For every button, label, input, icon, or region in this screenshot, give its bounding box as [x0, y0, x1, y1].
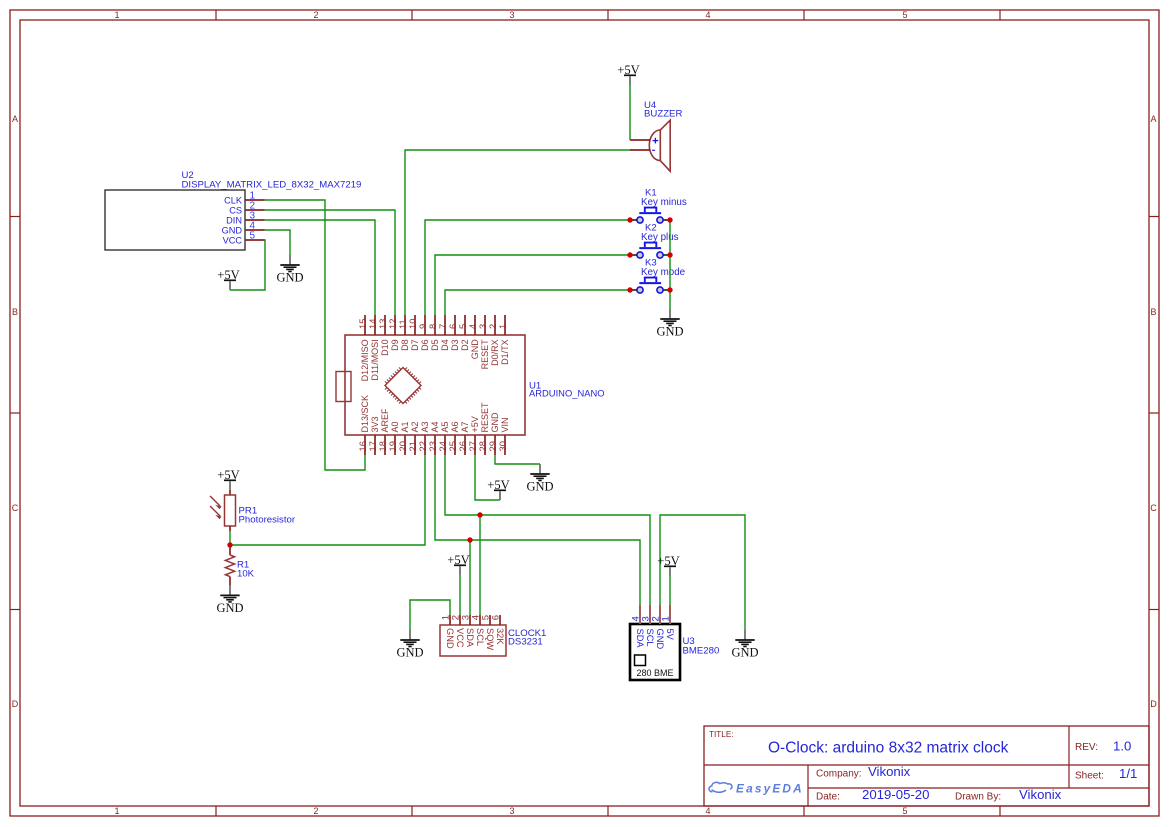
U1 usb connector rectangle: [336, 372, 351, 402]
svg-text:1/1: 1/1: [1119, 766, 1137, 781]
svg-text:A6: A6: [450, 421, 460, 432]
wire U1 +5V pin to +5V: [475, 455, 500, 500]
node SDA junction: [467, 537, 472, 542]
svg-text:1: 1: [661, 616, 672, 621]
svg-text:1: 1: [497, 324, 508, 329]
pin 4 GND of U1 (top): [467, 315, 480, 359]
svg-text:4: 4: [705, 10, 710, 20]
ground at R1: [216, 585, 243, 615]
svg-text:2: 2: [313, 806, 318, 816]
microcontroller U1 ARDUINO_NANO body: [345, 335, 605, 435]
wire K1 to U1 D6: [425, 220, 630, 315]
svg-text:VCC: VCC: [455, 628, 465, 648]
node K3 right terminal: [667, 287, 672, 292]
svg-text:D2: D2: [460, 339, 470, 351]
svg-text:A: A: [1150, 114, 1156, 124]
svg-text:6: 6: [491, 615, 502, 620]
wire U3 5V to +5V: [669, 576, 671, 605]
wire U2 GND to ground: [265, 230, 291, 255]
pin 29 GND of U1 (bottom): [487, 412, 500, 455]
svg-text:DIN: DIN: [226, 215, 242, 225]
svg-text:5: 5: [250, 231, 256, 242]
svg-text:GND: GND: [656, 325, 683, 339]
pin 16 D13/SCK of U1 (bottom): [357, 395, 370, 455]
pin - of U4: [630, 149, 651, 151]
wire SCL net U1 A5 to U3: [445, 455, 650, 605]
pin 20 A1 of U1 (bottom): [397, 421, 410, 455]
power +5V at U1: [487, 478, 510, 500]
rtc module CLOCK1 DS3231 body: [440, 625, 546, 656]
svg-text:1.0: 1.0: [1113, 739, 1131, 754]
pin 7 D4 of U1 (top): [437, 315, 450, 351]
svg-text:TITLE:: TITLE:: [709, 730, 734, 739]
svg-text:CLK: CLK: [224, 195, 243, 205]
svg-text:SCL: SCL: [475, 628, 485, 646]
pin 5 SQW of CLOCK1: [481, 615, 495, 650]
svg-text:Key minus: Key minus: [641, 197, 687, 208]
svg-text:D3: D3: [450, 339, 460, 351]
pin 6 D3 of U1 (top): [447, 315, 460, 351]
svg-text:Key plus: Key plus: [641, 232, 679, 243]
svg-text:10K: 10K: [237, 569, 255, 580]
U1 chip diamond symbol: [385, 368, 421, 404]
pin 21 A2 of U1 (bottom): [407, 421, 420, 455]
svg-text:+5V: +5V: [217, 468, 240, 482]
svg-text:GND: GND: [445, 628, 455, 649]
pin 28 RESET of U1 (bottom): [477, 402, 490, 455]
wire PR1 to divider node: [229, 531, 231, 545]
wire CLOCK1 GND to ground: [410, 600, 450, 630]
svg-text:D13/SCK: D13/SCK: [360, 395, 370, 433]
svg-text:5: 5: [902, 806, 907, 816]
pin 17 3V3 of U1 (bottom): [367, 416, 380, 455]
svg-text:O-Clock: arduino 8x32 matrix c: O-Clock: arduino 8x32 matrix clock: [768, 740, 1009, 757]
pin 2 D0/RX of U1 (top): [487, 315, 500, 366]
node SCL junction: [477, 512, 482, 517]
pin 10 D7 of U1 (top): [407, 315, 420, 351]
pushbutton K3 Key mode: [630, 258, 686, 294]
node K2 right terminal: [667, 252, 672, 257]
wire U2 CS to U1 D9: [265, 210, 396, 315]
svg-text:D5: D5: [430, 339, 440, 351]
wire U2 VCC to +5V: [230, 240, 265, 290]
EasyEDA logo: [709, 782, 804, 796]
svg-text:1: 1: [114, 806, 119, 816]
wire buzzer plus to +5V: [629, 85, 631, 140]
svg-text:D9: D9: [390, 339, 400, 351]
node divider node A: [227, 542, 232, 547]
pin 22 A3 of U1 (bottom): [417, 421, 430, 455]
title block: [704, 726, 1149, 806]
pin 13 D10 of U1 (top): [377, 315, 390, 356]
svg-text:D10: D10: [380, 339, 390, 356]
svg-text:BME280: BME280: [683, 646, 720, 657]
title block texts: [709, 730, 1137, 803]
svg-text:D12/MISO: D12/MISO: [360, 339, 370, 381]
svg-text:SDA: SDA: [635, 629, 645, 649]
svg-text:A5: A5: [440, 421, 450, 432]
svg-text:SCL: SCL: [645, 629, 655, 647]
svg-text:GND: GND: [490, 412, 500, 433]
svg-text:D: D: [1150, 699, 1157, 709]
svg-text:GND: GND: [731, 646, 758, 660]
pin 5 VCC of U2: [223, 231, 265, 246]
wire SDA branch to CLOCK1: [469, 540, 471, 615]
svg-text:D11/MOSI: D11/MOSI: [370, 339, 380, 380]
pin 11 D8 of U1 (top): [397, 315, 410, 351]
svg-text:Key mode: Key mode: [641, 267, 686, 278]
svg-text:D0/RX: D0/RX: [490, 339, 500, 366]
node K2 left terminal: [627, 252, 632, 257]
svg-text:32K: 32K: [495, 628, 505, 645]
svg-text:A3: A3: [420, 421, 430, 432]
svg-text:2: 2: [313, 10, 318, 20]
ground at keys: [656, 309, 683, 339]
svg-text:D4: D4: [440, 339, 450, 351]
svg-text:B: B: [12, 307, 18, 317]
svg-text:A2: A2: [410, 421, 420, 432]
svg-text:Photoresistor: Photoresistor: [239, 515, 296, 526]
svg-text:+5V: +5V: [217, 268, 240, 282]
svg-text:VCC: VCC: [223, 235, 243, 245]
node K1 right terminal: [667, 217, 672, 222]
pin 1 D1/TX of U1 (top): [497, 315, 510, 365]
pin 27 +5V of U1 (bottom): [467, 416, 480, 455]
svg-text:GND: GND: [276, 271, 303, 285]
power +5V at U2 VCC: [217, 268, 240, 290]
svg-text:REV:: REV:: [1075, 742, 1098, 753]
pushbutton K1 Key minus: [630, 188, 687, 224]
svg-text:1: 1: [114, 10, 119, 20]
pin 2 VCC of CLOCK1: [451, 615, 465, 648]
svg-text:GND: GND: [222, 225, 243, 235]
ground at U2: [276, 255, 303, 285]
pin 4 GND of U2: [222, 221, 265, 236]
frame column labels: [114, 10, 907, 816]
sensor U3 BME280 body: [630, 624, 719, 680]
svg-text:5V: 5V: [665, 629, 675, 641]
svg-text:5: 5: [902, 10, 907, 20]
pin 1 GND of CLOCK1: [441, 615, 455, 649]
power +5V at U3: [657, 554, 680, 576]
photoresistor PR1: [210, 490, 296, 531]
svg-text:D6: D6: [420, 339, 430, 351]
svg-text:CS: CS: [229, 205, 242, 215]
svg-text:D1/TX: D1/TX: [500, 339, 510, 365]
svg-text:+5V: +5V: [617, 63, 640, 77]
pin 4 SDA of U3: [631, 605, 645, 648]
svg-text:Sheet:: Sheet:: [1075, 771, 1104, 782]
svg-text:3: 3: [509, 806, 514, 816]
svg-text:BUZZER: BUZZER: [644, 109, 682, 120]
pin 3 SCL of U3: [641, 605, 655, 647]
resistor R1 10K: [225, 545, 254, 585]
svg-text:+5V: +5V: [470, 416, 480, 432]
svg-text:4: 4: [705, 806, 710, 816]
svg-text:30: 30: [497, 441, 508, 451]
pin 24 A5 of U1 (bottom): [437, 421, 450, 455]
svg-text:Vikonix: Vikonix: [868, 764, 911, 779]
power +5V at buzzer: [617, 63, 640, 85]
wire U2 DIN to U1 D11/MOSI: [265, 220, 376, 315]
svg-text:DISPLAY_MATRIX_LED_8X32_MAX721: DISPLAY_MATRIX_LED_8X32_MAX7219: [182, 180, 362, 191]
pin 15 D12/MISO of U1 (top): [357, 315, 370, 381]
display module U2 DISPLAY_MATRIX_LED_8X32_MAX7219: [105, 170, 361, 250]
pin 3 DIN of U2: [226, 211, 264, 226]
wire SDA net U1 A4 to U3: [435, 455, 640, 605]
ground at CLOCK1: [396, 630, 423, 660]
wire keys common to ground: [669, 220, 671, 309]
ground at U3: [731, 630, 758, 660]
svg-text:A7: A7: [460, 421, 470, 432]
svg-text:GND: GND: [216, 601, 243, 615]
svg-text:ARDUINO_NANO: ARDUINO_NANO: [529, 388, 605, 399]
pin 3 RESET of U1 (top): [477, 315, 490, 369]
wire U1 GND pin to ground: [495, 455, 540, 464]
pin 2 CS of U2: [229, 201, 264, 216]
svg-text:GND: GND: [655, 629, 665, 650]
pin 9 D6 of U1 (top): [417, 315, 430, 351]
svg-text:RESET: RESET: [480, 402, 490, 433]
frame row labels: [12, 114, 1158, 709]
wire SCL branch to CLOCK1: [479, 515, 481, 615]
wire U1 A3 to photoresistor divider: [230, 455, 425, 545]
wire U3 GND to ground: [660, 515, 745, 630]
power +5V at PR1: [217, 468, 240, 490]
pin 1 CLK of U2: [224, 191, 264, 206]
pushbutton K2 Key plus: [630, 223, 679, 259]
svg-text:A1: A1: [400, 421, 410, 432]
svg-text:D: D: [12, 699, 19, 709]
wire K2 to U1 D5: [435, 255, 630, 315]
svg-text:GND: GND: [396, 646, 423, 660]
pin 6 32K of CLOCK1: [491, 615, 505, 645]
svg-text:VIN: VIN: [500, 417, 510, 432]
svg-text:SQW: SQW: [485, 628, 495, 650]
svg-text:C: C: [12, 503, 19, 513]
pin 2 GND of U3: [651, 605, 665, 649]
svg-text:DS3231: DS3231: [508, 637, 543, 648]
pin 26 A7 of U1 (bottom): [457, 421, 470, 455]
pin 30 VIN of U1 (bottom): [497, 417, 510, 455]
wire buzzer minus to U1 D8: [405, 150, 630, 315]
wire K3 to U1 D4: [445, 290, 630, 315]
svg-text:SDA: SDA: [465, 628, 475, 648]
node K3 left terminal: [627, 287, 632, 292]
pin 18 AREF of U1 (bottom): [377, 408, 390, 455]
svg-text:+5V: +5V: [447, 553, 470, 567]
svg-text:3: 3: [509, 10, 514, 20]
pin 23 A4 of U1 (bottom): [427, 421, 440, 455]
buzzer U4: [644, 100, 682, 171]
svg-text:D8: D8: [400, 339, 410, 351]
svg-text:GND: GND: [470, 339, 480, 360]
svg-text:A4: A4: [430, 421, 440, 432]
svg-text:A0: A0: [390, 421, 400, 432]
pin 14 D11/MOSI of U1 (top): [367, 315, 380, 381]
svg-text:EasyEDA: EasyEDA: [736, 782, 804, 796]
pin 19 A0 of U1 (bottom): [387, 421, 400, 455]
wire CLOCK1 VCC to +5V: [459, 575, 461, 615]
pin 4 SCL of CLOCK1: [471, 615, 485, 646]
svg-text:A: A: [12, 114, 18, 124]
svg-text:3V3: 3V3: [370, 416, 380, 432]
pin 12 D9 of U1 (top): [387, 315, 400, 351]
svg-text:280 BME: 280 BME: [637, 668, 674, 678]
svg-text:Company:: Company:: [816, 769, 862, 780]
svg-text:AREF: AREF: [380, 408, 390, 433]
node K1 left terminal: [627, 217, 632, 222]
pin 5 D2 of U1 (top): [457, 315, 470, 351]
svg-text:+5V: +5V: [487, 478, 510, 492]
pin 1 5V of U3: [661, 605, 675, 641]
svg-text:C: C: [1150, 503, 1157, 513]
svg-text:2019-05-20: 2019-05-20: [862, 787, 929, 802]
svg-text:Drawn By:: Drawn By:: [955, 792, 1001, 803]
svg-text:B: B: [1150, 307, 1156, 317]
pin 3 SDA of CLOCK1: [461, 615, 475, 648]
pin + of U4: [630, 139, 651, 141]
ground at U1: [526, 464, 553, 494]
pin 25 A6 of U1 (bottom): [447, 421, 460, 455]
svg-text:Date:: Date:: [816, 792, 840, 803]
svg-text:RESET: RESET: [480, 339, 490, 370]
svg-text:D7: D7: [410, 339, 420, 351]
svg-text:+5V: +5V: [657, 554, 680, 568]
pin 8 D5 of U1 (top): [427, 315, 440, 351]
svg-text:GND: GND: [526, 480, 553, 494]
svg-text:Vikonix: Vikonix: [1019, 787, 1062, 802]
power +5V at CLOCK1: [447, 553, 470, 575]
wire U2 CLK to U1 D13/SCK: [265, 200, 366, 470]
